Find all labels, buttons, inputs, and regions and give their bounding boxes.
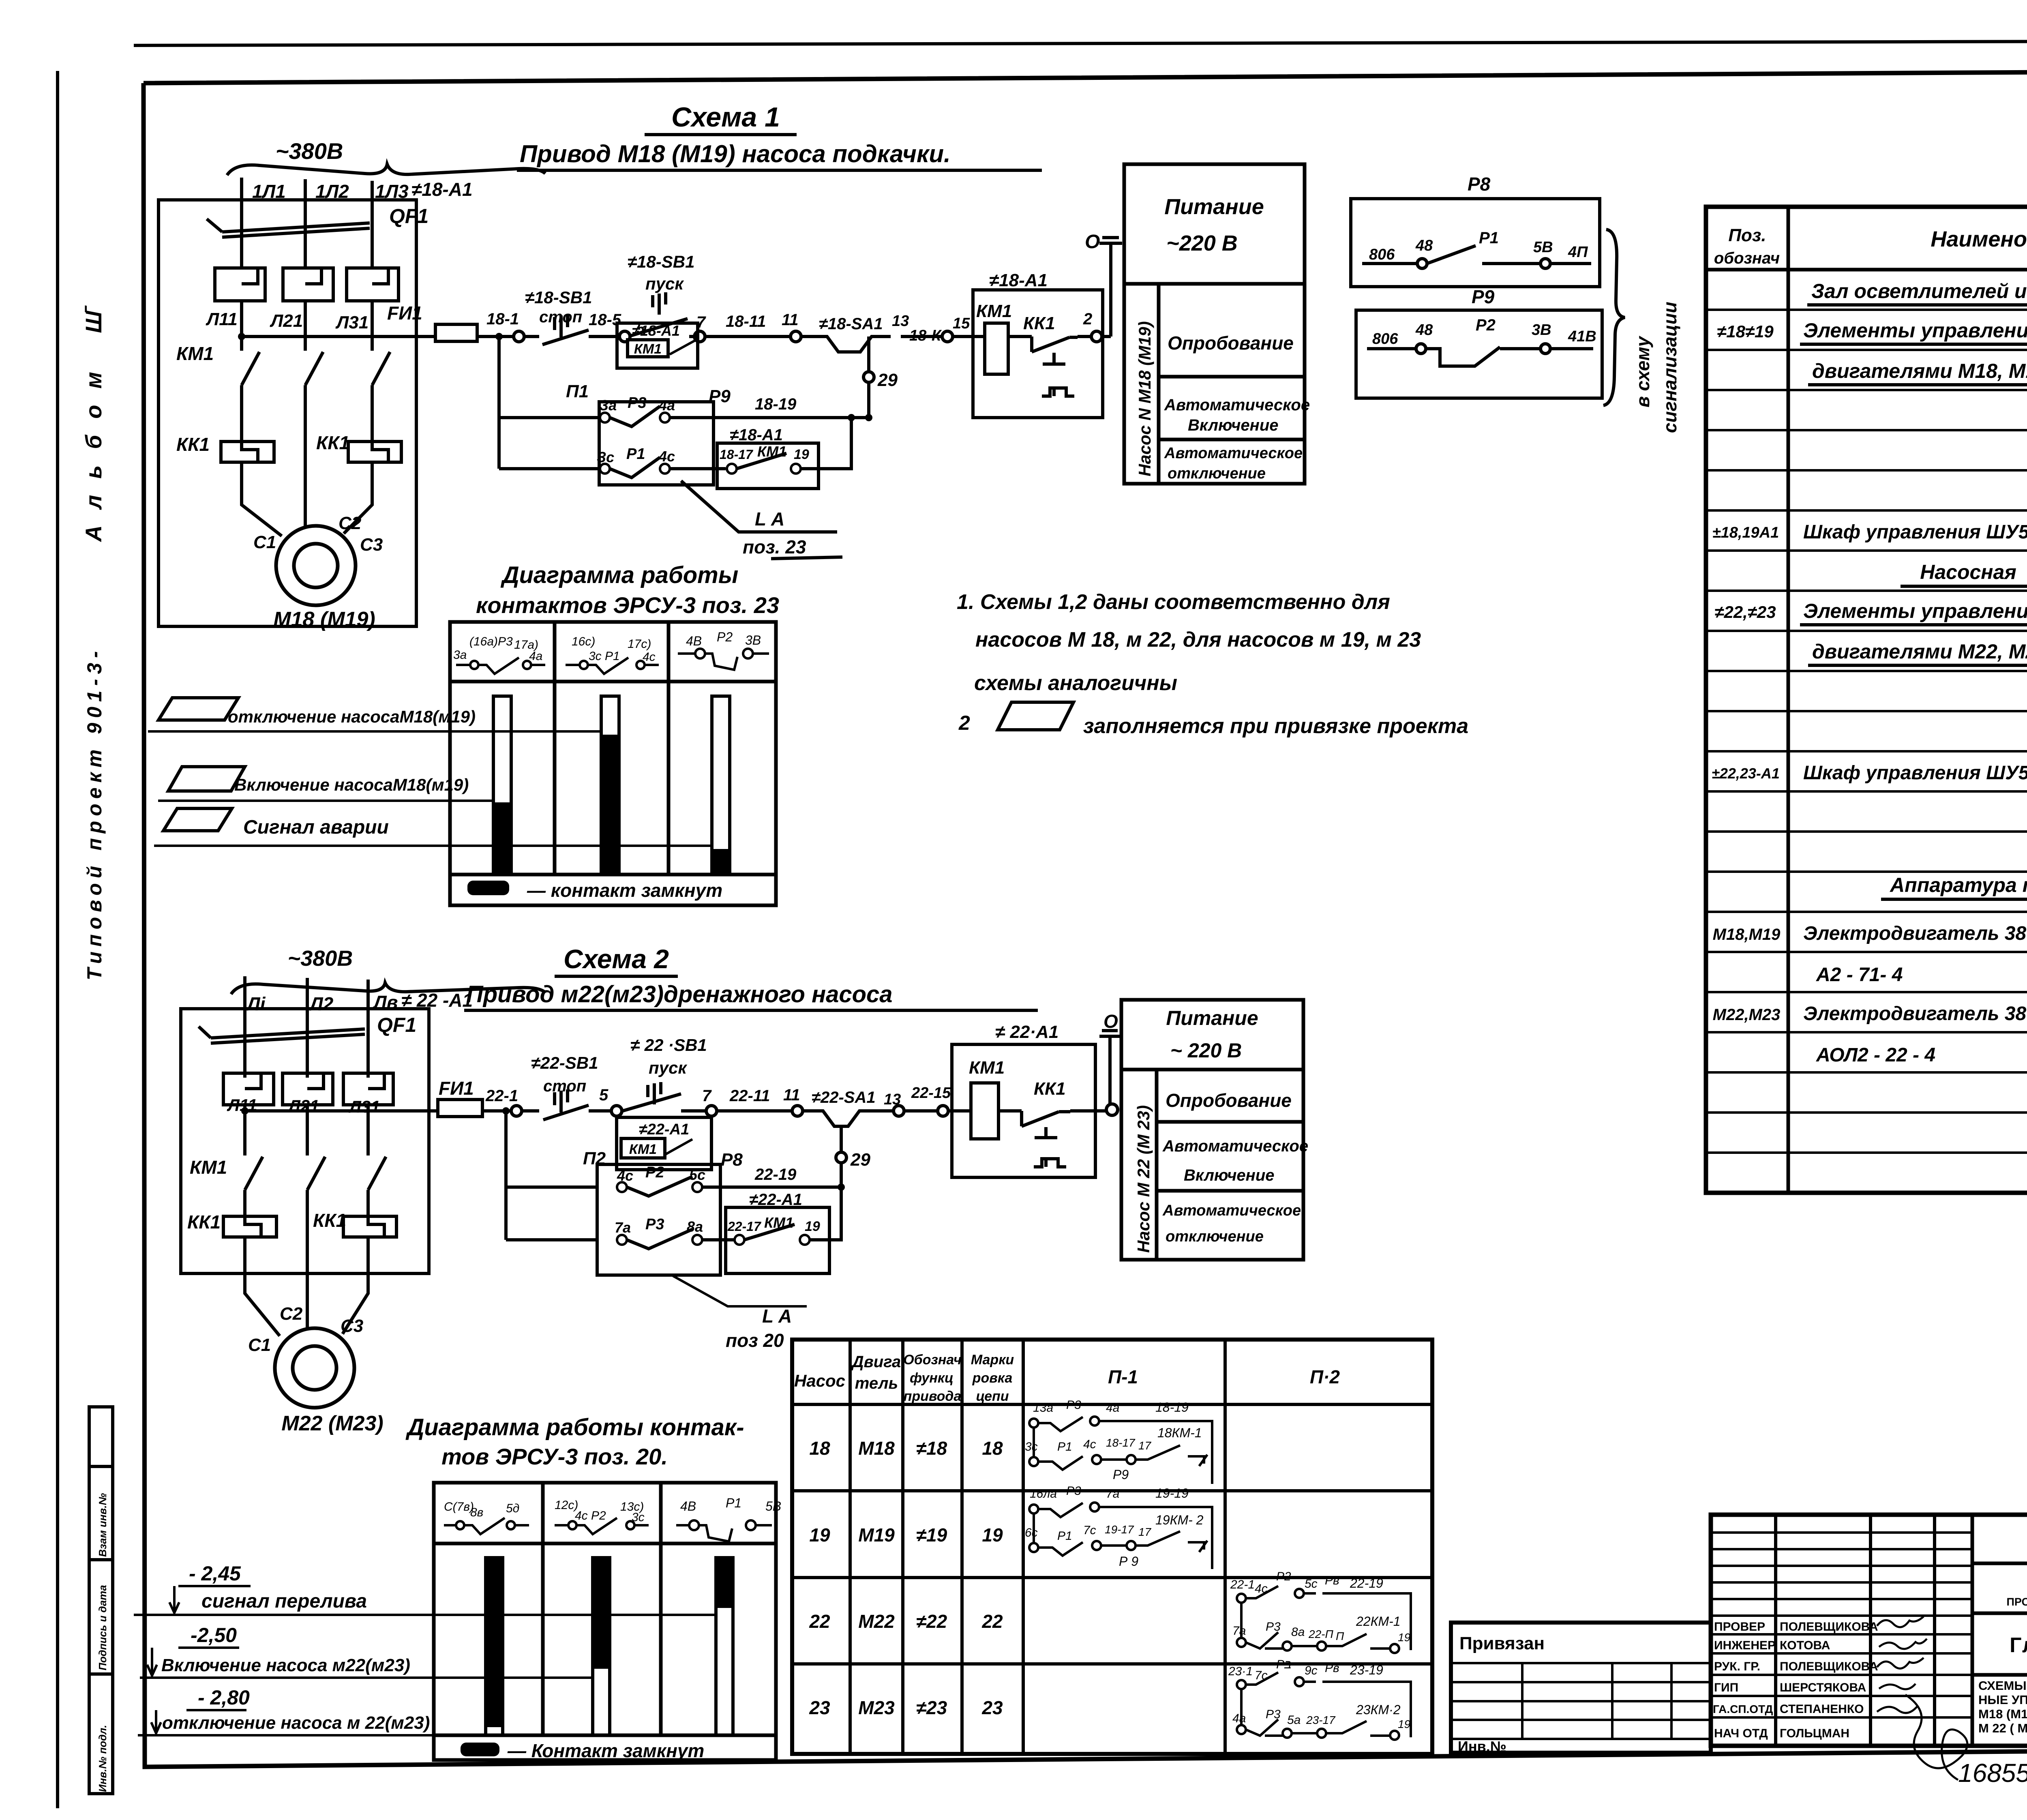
svg-text:М19: М19	[858, 1524, 895, 1546]
svg-text:П: П	[1336, 1630, 1344, 1642]
svg-text:Типовой проект 901-3-: Типовой проект 901-3-	[83, 646, 106, 980]
svg-text:Насосная: Насосная	[1920, 561, 2016, 583]
svg-text:Зал осветлителей и фильтров: Зал осветлителей и фильтров	[1811, 280, 2027, 302]
svg-text:22-17: 22-17	[727, 1219, 762, 1234]
svg-text:Обознач: Обознач	[903, 1352, 962, 1368]
svg-text:Привязан: Привязан	[1459, 1633, 1545, 1653]
svg-text:За: За	[599, 397, 617, 414]
header contact col1	[444, 1518, 529, 1534]
svg-text:Диаграмма работы контак-: Диаграмма работы контак-	[405, 1414, 744, 1441]
svg-text:5а: 5а	[1287, 1713, 1301, 1727]
svg-text:ПРОИЗВОДИТЕЛЬНОСТЬЮ 20ТЫС.М3/С: ПРОИЗВОДИТЕЛЬНОСТЬЮ 20ТЫС.М3/СУТКИ С ВИХ…	[2006, 1596, 2027, 1608]
svg-text:Автоматическое: Автоматическое	[1164, 445, 1303, 462]
svg-text:7: 7	[702, 1087, 712, 1105]
wire 8a to aux contact	[702, 1238, 735, 1241]
leader to LA pos.20	[673, 1276, 807, 1306]
svg-text:41В: 41В	[1568, 328, 1596, 345]
header contact col3	[676, 1520, 772, 1541]
main title block frame	[1711, 1515, 2027, 1746]
branch to node 29	[867, 337, 870, 418]
svg-text:С(7в): С(7в)	[444, 1500, 474, 1513]
svg-text:С1: С1	[253, 532, 276, 552]
svg-text:4а: 4а	[1232, 1712, 1246, 1725]
svg-text:3с Р1: 3с Р1	[589, 650, 620, 663]
svg-text:М 22 ( М 23): М 22 ( М 23)	[1978, 1721, 2027, 1735]
svg-text:Шкаф управления ШУ5104-03 В2Е: Шкаф управления ШУ5104-03 В2Е	[1803, 762, 2027, 784]
svg-text:18: 18	[982, 1438, 1003, 1459]
svg-text:КК1: КК1	[176, 434, 210, 455]
wire phase C	[371, 181, 374, 268]
svg-text:Р1: Р1	[1479, 229, 1499, 247]
svg-text:±22,23-А1: ±22,23-А1	[1712, 765, 1780, 782]
control wire	[245, 1109, 539, 1113]
svg-text:РУК. ГР.: РУК. ГР.	[1714, 1660, 1760, 1673]
svg-text:≠18-А1: ≠18-А1	[989, 270, 1048, 290]
diagram 1 box	[450, 622, 776, 905]
svg-text:Питание: Питание	[1164, 195, 1264, 219]
svg-text:19: 19	[982, 1524, 1003, 1546]
svg-text:КМ1: КМ1	[176, 343, 214, 364]
svg-text:тель: тель	[855, 1374, 898, 1392]
signatures	[1877, 1616, 1967, 1780]
svg-text:22-11: 22-11	[729, 1087, 770, 1105]
svg-text:НЫЕ УПРАВЛЕНИЯ НАСОСОМ ПОДКАЧК: НЫЕ УПРАВЛЕНИЯ НАСОСОМ ПОДКАЧКИ	[1978, 1693, 2027, 1707]
svg-text:Автоматическое: Автоматическое	[1162, 1137, 1308, 1155]
svg-text:23КМ·2: 23КМ·2	[1356, 1702, 1401, 1717]
svg-text:806: 806	[1372, 330, 1398, 347]
bar 2	[593, 1558, 610, 1735]
svg-text:FИ1: FИ1	[439, 1078, 474, 1099]
junction on phase A	[241, 1107, 249, 1115]
svg-text:19-19: 19-19	[1155, 1486, 1189, 1501]
snippet 18 circuit	[1029, 1417, 1212, 1484]
control wire from phase A	[242, 335, 539, 338]
svg-text:~ 220 В: ~ 220 В	[1170, 1039, 1242, 1062]
svg-text:5: 5	[599, 1086, 609, 1104]
bar 3	[716, 1558, 733, 1735]
svg-text:отключение насоса м 22(м23): отключение насоса м 22(м23)	[162, 1713, 430, 1733]
svg-text:4а: 4а	[658, 397, 675, 414]
svg-text:Насос N М18 (М19): Насос N М18 (М19)	[1135, 321, 1154, 476]
svg-text:Л11: Л11	[206, 309, 238, 329]
svg-text:Включение насосаМ18(м19): Включение насосаМ18(м19)	[234, 775, 469, 794]
svg-text:19КМ- 2: 19КМ- 2	[1155, 1513, 1204, 1527]
svg-text:- 2,80: - 2,80	[198, 1686, 250, 1709]
bar 2	[601, 696, 619, 875]
svg-text:ПОЛЕВЩИКОВА: ПОЛЕВЩИКОВА	[1780, 1660, 1878, 1673]
svg-text:двигателями М18, М19: двигателями М18, М19	[1812, 360, 2027, 382]
breaker pole 3	[347, 268, 399, 301]
thermal relay KK1 heater 2	[343, 1216, 396, 1237]
svg-text:пуск: пуск	[649, 1058, 687, 1077]
breaker pole 2	[283, 1073, 333, 1105]
bar 1	[486, 1558, 503, 1735]
svg-text:СТЕПАНЕНКО: СТЕПАНЕНКО	[1780, 1702, 1864, 1716]
svg-text:3с: 3с	[1025, 1440, 1038, 1453]
svg-text:~220 В: ~220 В	[1166, 231, 1238, 255]
svg-text:≠23: ≠23	[916, 1697, 947, 1718]
svg-text:7а: 7а	[1232, 1624, 1246, 1638]
svg-text:2: 2	[958, 712, 970, 734]
relay P8 contact box	[1351, 199, 1600, 287]
svg-text:22КМ-1: 22КМ-1	[1356, 1614, 1401, 1629]
svg-text:1. Схемы 1,2 даны соответств: 1. Схемы 1,2 даны соответственно для	[957, 590, 1390, 614]
svg-text:Аппаратура по месту: Аппаратура по месту	[1889, 874, 2027, 896]
bottom-left stamp column	[89, 1407, 113, 1794]
KM1 main contact 1	[242, 352, 259, 385]
svg-text:-2,50: -2,50	[191, 1624, 237, 1646]
svg-text:в схему: в схему	[1632, 335, 1653, 407]
contactor box 22-A1	[952, 1044, 1095, 1177]
svg-text:Включение: Включение	[1184, 1166, 1275, 1184]
svg-text:18-19: 18-19	[755, 395, 797, 413]
svg-text:≠18-SА1: ≠18-SА1	[819, 315, 883, 333]
specification table grid	[1706, 207, 2027, 1193]
svg-text:29: 29	[850, 1150, 870, 1170]
svg-text:Рв: Рв	[1325, 1574, 1339, 1587]
svg-text:Р9: Р9	[1113, 1467, 1129, 1482]
svg-text:≠ 22·А1: ≠ 22·А1	[995, 1022, 1058, 1042]
svg-text:М23: М23	[858, 1697, 895, 1718]
wires to motor	[242, 462, 372, 536]
fuse FU1	[435, 324, 477, 341]
svg-text:КМ1: КМ1	[629, 1142, 657, 1157]
svg-text:Опробование: Опробование	[1168, 332, 1294, 354]
svg-text:Насос М 22 (М 23): Насос М 22 (М 23)	[1134, 1105, 1153, 1253]
svg-text:Шкаф управления ШУ5102-23 В 2А: Шкаф управления ШУ5102-23 В 2А	[1803, 521, 2027, 543]
svg-text:22-15: 22-15	[911, 1085, 951, 1102]
svg-text:23-19: 23-19	[1350, 1663, 1383, 1677]
svg-text:С2: С2	[339, 513, 362, 533]
snippet 23 circuit	[1237, 1672, 1411, 1740]
svg-text:22-19: 22-19	[754, 1166, 797, 1183]
svg-text:Марки: Марки	[971, 1352, 1014, 1368]
svg-text:Схема 1: Схема 1	[671, 102, 780, 133]
svg-text:8а: 8а	[1291, 1625, 1305, 1639]
svg-text:4с: 4с	[1255, 1582, 1268, 1595]
KM1 holding contact box 22-A1 (below line)	[617, 1117, 711, 1170]
svg-text:С3: С3	[341, 1316, 363, 1336]
legend swatch	[467, 881, 509, 895]
svg-text:Подпись и дата: Подпись и дата	[96, 1585, 109, 1670]
header contact col1	[456, 658, 545, 674]
svg-text:Электродвигатель 380В, 22 кВт.: Электродвигатель 380В, 22 кВт.	[1803, 923, 2027, 944]
svg-text:ГА.СП.ОТД: ГА.СП.ОТД	[1713, 1703, 1773, 1715]
svg-text:П-1: П-1	[1108, 1366, 1138, 1387]
svg-text:схемы аналогичны: схемы аналогичны	[974, 671, 1177, 695]
svg-text:13а: 13а	[1033, 1401, 1053, 1415]
svg-text:ШЕРСТЯКОВА: ШЕРСТЯКОВА	[1780, 1681, 1866, 1694]
circuit breaker QF1 boundary	[181, 1009, 429, 1273]
breaker pole 3	[343, 1073, 393, 1105]
svg-text:19: 19	[1398, 1631, 1410, 1644]
snippet 22 circuit	[1237, 1586, 1411, 1653]
svg-text:цепи: цепи	[976, 1389, 1009, 1404]
svg-text:Сигнал аварии: Сигнал аварии	[243, 817, 389, 838]
svg-text:отключение: отключение	[1168, 465, 1266, 482]
thermal relay KK1 heater 1	[221, 442, 274, 462]
svg-text:Р9: Р9	[1472, 286, 1495, 307]
svg-text:L А: L А	[762, 1306, 792, 1327]
svg-text:А2 - 71- 4: А2 - 71- 4	[1816, 964, 1903, 986]
svg-text:ровка: ровка	[972, 1370, 1013, 1386]
svg-text:≠18-А1: ≠18-А1	[730, 426, 783, 444]
svg-text:18-17: 18-17	[720, 447, 754, 462]
power legend box schema 1	[1124, 164, 1305, 484]
pump wiring table grid	[792, 1340, 1432, 1754]
svg-text:ИНЖЕНЕР.: ИНЖЕНЕР.	[1714, 1639, 1777, 1652]
svg-text:СХЕМЫ ЭЛЕКТРИЧЕСКИЕ ПРИНЦИПИАЛ: СХЕМЫ ЭЛЕКТРИЧЕСКИЕ ПРИНЦИПИАЛЬ-	[1978, 1679, 2027, 1693]
svg-text:Р8: Р8	[1468, 174, 1491, 195]
svg-text:18-1: 18-1	[486, 310, 519, 328]
left bus of P2	[506, 1111, 598, 1240]
svg-text:насосов М 18, м 22, для на: насосов М 18, м 22, для насосов м 19, м …	[975, 628, 1421, 652]
svg-text:4с: 4с	[1083, 1438, 1096, 1451]
svg-text:23-17: 23-17	[1306, 1714, 1336, 1726]
wire phase A	[243, 976, 246, 1078]
svg-text:Р2: Р2	[1476, 316, 1496, 334]
svg-text:17: 17	[1138, 1439, 1152, 1452]
svg-text:18-19: 18-19	[1155, 1400, 1189, 1415]
svg-text:23: 23	[809, 1697, 830, 1718]
KM1 main contacts	[245, 1157, 386, 1190]
svg-text:привода: привода	[904, 1389, 962, 1404]
svg-text:2: 2	[1083, 310, 1092, 328]
svg-text:Рב: Рב	[1276, 1658, 1292, 1671]
svg-text:Инв.№: Инв.№	[1458, 1738, 1506, 1755]
zero bus O	[1099, 1031, 1121, 1104]
svg-text:7с: 7с	[1083, 1524, 1096, 1537]
svg-text:М18 (М19): М18 (М19)	[273, 608, 375, 631]
wire to node 5	[589, 335, 619, 338]
svg-text:Инв.№ подл.: Инв.№ подл.	[96, 1725, 109, 1792]
breaker pole 2	[283, 268, 333, 301]
svg-text:двигателями М22, М23: двигателями М22, М23	[1812, 640, 2027, 663]
svg-text:Л31: Л31	[348, 1097, 380, 1116]
svg-text:сигнализации: сигнализации	[1659, 302, 1680, 433]
svg-text:≠19: ≠19	[916, 1524, 947, 1546]
svg-text:Р1: Р1	[1057, 1529, 1072, 1543]
svg-text:Схема 2: Схема 2	[564, 944, 669, 974]
svg-text:Автоматическое: Автоматическое	[1162, 1202, 1301, 1219]
svg-text:18: 18	[809, 1438, 830, 1459]
svg-text:4с: 4с	[617, 1167, 633, 1184]
sheet outer edge left	[56, 71, 59, 1808]
svg-text:ПРОВЕР: ПРОВЕР	[1714, 1620, 1765, 1633]
svg-text:22-П: 22-П	[1308, 1628, 1333, 1640]
svg-text:С1: С1	[248, 1335, 271, 1355]
svg-text:Взам инв.№: Взам инв.№	[96, 1493, 109, 1557]
wires to motor	[245, 1237, 368, 1336]
svg-text:КМ1: КМ1	[969, 1058, 1005, 1078]
svg-text:QF1: QF1	[389, 205, 429, 227]
svg-text:11: 11	[782, 311, 799, 329]
svg-text:Двига: Двига	[851, 1353, 901, 1371]
breaker pole 1	[223, 1073, 274, 1105]
svg-text:Привод м22(м23)дренажного насо: Привод м22(м23)дренажного насоса	[466, 981, 893, 1008]
svg-text:18-17: 18-17	[1106, 1436, 1136, 1449]
svg-text:4с: 4с	[658, 448, 675, 465]
header contact col2	[566, 658, 659, 674]
svg-text:Р2: Р2	[645, 1164, 664, 1181]
svg-text:5В: 5В	[765, 1499, 781, 1513]
svg-text:Опробование: Опробование	[1166, 1090, 1292, 1111]
svg-text:Р3: Р3	[628, 394, 646, 412]
KM1 holding contact box 18-A1	[617, 323, 698, 368]
svg-text:Привод М18 (М19) насоса подка: Привод М18 (М19) насоса подкачки.	[520, 140, 951, 167]
svg-text:4с Р2: 4с Р2	[575, 1509, 606, 1522]
svg-text:19-17: 19-17	[1105, 1523, 1134, 1536]
svg-text:Р3: Р3	[1066, 1484, 1081, 1498]
KM1 main contact 3	[372, 352, 390, 385]
svg-text:≠22-SВ1: ≠22-SВ1	[531, 1053, 598, 1072]
svg-text:23: 23	[981, 1697, 1003, 1718]
svg-text:ПОЛЕВЩИКОВА: ПОЛЕВЩИКОВА	[1780, 1620, 1878, 1633]
svg-text:15: 15	[953, 315, 970, 332]
svg-text:Л31: Л31	[335, 313, 369, 332]
svg-text:9с: 9с	[1305, 1664, 1318, 1677]
svg-text:≠18: ≠18	[916, 1438, 947, 1459]
svg-text:Альбом Ш̄: Альбом Ш̄	[81, 295, 106, 542]
svg-text:КК1: КК1	[187, 1211, 221, 1233]
svg-text:Р8: Р8	[721, 1150, 743, 1170]
svg-text:М22: М22	[858, 1611, 895, 1632]
thermal relay KK1 heater 1	[223, 1216, 276, 1237]
svg-text:7с: 7с	[1255, 1669, 1268, 1682]
leader to LA pos.23	[681, 481, 837, 532]
svg-text:отключение насосаМ18(м19): отключение насосаМ18(м19)	[228, 707, 476, 726]
svg-text:отключение: отключение	[1166, 1228, 1264, 1245]
snippet 19 circuit	[1029, 1503, 1212, 1569]
svg-text:16855 - 03: 16855 - 03	[1958, 1758, 2027, 1788]
svg-text:4а: 4а	[1106, 1401, 1119, 1415]
svg-text:Элементы управления электро -: Элементы управления электро -	[1803, 319, 2027, 342]
circuit breaker QF1 boundary	[159, 200, 416, 626]
svg-text:6с: 6с	[1025, 1526, 1038, 1539]
wire 22-19	[702, 1185, 841, 1189]
svg-text:Наименование: Наименование	[1931, 227, 2027, 251]
brace 380V	[231, 983, 545, 994]
wire phase B	[304, 179, 307, 268]
fuse FU1	[438, 1100, 482, 1117]
privyazan block	[1451, 1623, 1711, 1753]
svg-text:П1: П1	[566, 382, 589, 401]
svg-text:29: 29	[877, 370, 898, 390]
svg-text:Рв: Рв	[1325, 1661, 1339, 1675]
svg-text:23·1: 23·1	[1228, 1665, 1253, 1678]
svg-text:функц: функц	[910, 1370, 954, 1386]
svg-text:22: 22	[809, 1611, 830, 1632]
svg-text:7а: 7а	[1106, 1487, 1119, 1501]
breaker tie bar	[199, 1027, 365, 1043]
label: pump on	[168, 767, 245, 791]
KM1 main contact 2	[305, 352, 323, 385]
svg-text:5д: 5д	[506, 1502, 519, 1515]
svg-text:КМ1: КМ1	[634, 341, 662, 357]
node 7	[689, 335, 791, 338]
svg-text:7а: 7а	[615, 1219, 631, 1236]
svg-text:— Контакт замкнут: — Контакт замкнут	[507, 1740, 704, 1761]
svg-text:Л2: Л2	[309, 993, 334, 1014]
svg-text:(16а)Р3: (16а)Р3	[469, 635, 513, 648]
breaker tie bar	[207, 219, 370, 237]
svg-text:≠22: ≠22	[916, 1611, 947, 1632]
svg-text:FИ1: FИ1	[387, 302, 422, 324]
svg-text:Р2: Р2	[1276, 1570, 1291, 1583]
svg-text:19: 19	[1398, 1718, 1410, 1730]
svg-text:4а: 4а	[529, 650, 542, 663]
svg-text:≠22,≠23: ≠22,≠23	[1714, 602, 1776, 622]
node 7	[681, 1109, 792, 1113]
svg-text:Р1: Р1	[626, 446, 645, 463]
svg-text:М18 (М19) И ДРЕНАЖНЫМ НАСОСОМ: М18 (М19) И ДРЕНАЖНЫМ НАСОСОМ	[1978, 1707, 2027, 1721]
svg-text:Поз.: Поз.	[1728, 225, 1766, 245]
svg-text:4В: 4В	[680, 1499, 696, 1513]
svg-text:18-11: 18-11	[726, 313, 766, 330]
svg-text:≠22-SА1: ≠22-SА1	[812, 1089, 876, 1106]
svg-text:КК1: КК1	[1034, 1079, 1066, 1099]
svg-text:Включение: Включение	[1188, 416, 1279, 434]
svg-text:22: 22	[981, 1611, 1003, 1632]
svg-text:±18,19А1: ±18,19А1	[1712, 524, 1779, 541]
svg-text:19: 19	[794, 447, 809, 462]
svg-text:22-1: 22-1	[485, 1087, 518, 1105]
svg-text:19: 19	[805, 1219, 820, 1234]
wire phase B	[306, 978, 309, 1078]
thermal relay KK1 heater 2	[348, 442, 401, 462]
svg-text:~380В: ~380В	[276, 138, 343, 164]
svg-text:13: 13	[892, 313, 909, 330]
motor M18(M19)	[276, 526, 356, 605]
svg-text:КОТОВА: КОТОВА	[1780, 1639, 1830, 1652]
svg-text:О: О	[1103, 1011, 1118, 1032]
bar 1	[493, 696, 511, 875]
legend swatch	[461, 1743, 499, 1756]
svg-text:КМ1: КМ1	[976, 301, 1012, 321]
svg-text:48: 48	[1415, 322, 1433, 339]
svg-text:Питание: Питание	[1166, 1007, 1258, 1029]
svg-text:Электродвигатель 380В, 1,5 кВт: Электродвигатель 380В, 1,5 кВт	[1803, 1003, 2027, 1025]
svg-text:8в: 8в	[470, 1506, 483, 1519]
svg-text:Р3: Р3	[1266, 1708, 1281, 1721]
svg-text:заполняется при привязке про: заполняется при привязке проекта	[1083, 714, 1468, 738]
wires below poles	[242, 301, 372, 351]
svg-text:≠18-SВ1: ≠18-SВ1	[628, 252, 694, 271]
svg-text:≠22-А1: ≠22-А1	[639, 1121, 689, 1138]
svg-text:3В: 3В	[1532, 322, 1551, 339]
svg-text:3с: 3с	[632, 1511, 645, 1524]
svg-text:С3: С3	[360, 535, 383, 555]
svg-text:М22 (М23): М22 (М23)	[281, 1412, 383, 1435]
svg-text:М22,М23: М22,М23	[1713, 1006, 1781, 1024]
svg-text:Главный корпус: Главный корпус	[2010, 1633, 2027, 1657]
svg-text:≠18≠19: ≠18≠19	[1717, 322, 1774, 341]
svg-text:АОЛ2 - 22 - 4: АОЛ2 - 22 - 4	[1816, 1044, 1935, 1066]
sheet outer edge top	[134, 41, 2027, 45]
svg-text:Р3: Р3	[645, 1216, 664, 1233]
svg-text:QF1: QF1	[377, 1014, 416, 1036]
svg-text:М18: М18	[858, 1438, 895, 1459]
brace 380V	[227, 164, 545, 175]
zero bus O	[1099, 238, 1122, 337]
brace to signal circuit	[1603, 229, 1625, 405]
label: pump off	[159, 698, 238, 720]
svg-text:поз 20: поз 20	[726, 1330, 784, 1351]
svg-text:22-19: 22-19	[1350, 1576, 1383, 1591]
svg-text:4с: 4с	[643, 650, 656, 664]
left bus of P1	[499, 337, 600, 469]
KM1 auxiliary contact box 22-A1	[726, 1207, 829, 1273]
